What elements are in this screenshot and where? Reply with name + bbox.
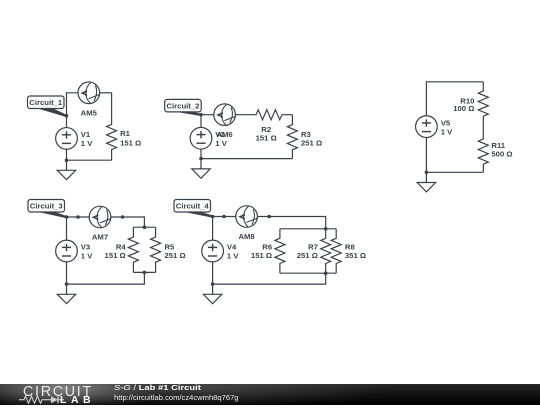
wire C4 corner to ammeter	[213, 216, 236, 218]
resistor R3 251 ohm	[287, 115, 322, 159]
wire C4 parallel bottom bus	[280, 272, 336, 274]
svg-text:AM7: AM7	[92, 232, 108, 241]
svg-text:151 Ω: 151 Ω	[105, 251, 126, 260]
svg-text:151 Ω: 151 Ω	[120, 139, 141, 148]
wire C3 ammeter to parallel feed	[111, 217, 145, 227]
svg-text:Circuit_3: Circuit_3	[30, 201, 63, 210]
wire C2 ground stub	[200, 159, 202, 169]
voltage source V1 1 V	[56, 128, 94, 150]
node C1 label anchor junction	[65, 114, 69, 118]
wire C1 ground stub	[66, 160, 68, 170]
svg-text:151 Ω: 151 Ω	[251, 251, 272, 260]
node C2 ground junction	[199, 157, 203, 161]
wire C1 bottom rail	[67, 149, 112, 160]
svg-text:351 Ω: 351 Ω	[345, 251, 366, 260]
svg-text:100 Ω: 100 Ω	[453, 104, 474, 113]
svg-text:1 V: 1 V	[227, 252, 239, 261]
svg-text:AM5: AM5	[81, 108, 98, 117]
label Circuit_4 callout	[174, 200, 213, 217]
svg-text:251 Ω: 251 Ω	[301, 139, 322, 148]
svg-text:R3: R3	[301, 130, 311, 139]
wire C5 bottom rail	[426, 138, 483, 173]
svg-text:1 V: 1 V	[81, 252, 93, 261]
wire C4 V4 stub top	[212, 217, 214, 241]
resistor R8 351 ohm	[331, 229, 366, 273]
wire C2 corner to ammeter	[201, 114, 214, 116]
ground C3	[57, 293, 75, 304]
node C3 label anchor junction	[65, 215, 69, 219]
label Circuit_2 callout	[165, 99, 202, 115]
wire C1 ammeter to V1 top corner	[67, 93, 79, 128]
ground C2	[192, 167, 210, 178]
ground C4	[203, 293, 221, 304]
node C4 ammeter right junction	[267, 215, 271, 219]
node C3 bottom bus junction	[143, 271, 147, 275]
svg-text:R2: R2	[261, 125, 271, 134]
ammeter AM5	[78, 82, 100, 117]
ammeter AM6	[214, 104, 236, 139]
svg-text:Circuit_2: Circuit_2	[166, 101, 199, 110]
resistor R4 151 ohm	[105, 227, 139, 272]
ammeter AM8	[236, 206, 258, 241]
resistor R11 500 ohm	[478, 139, 512, 172]
footer url line	[114, 393, 239, 402]
svg-text:V5: V5	[441, 118, 451, 127]
resistor R1 151 ohm	[107, 93, 142, 160]
node C2 label anchor junction	[199, 113, 203, 117]
svg-text:AM8: AM8	[238, 232, 255, 241]
wire C4 ammeter to parallel feed	[257, 217, 325, 229]
wire C3 parallel bottom bus	[133, 271, 155, 273]
wire C3 bottom rail	[67, 262, 145, 284]
svg-text:1 V: 1 V	[81, 139, 93, 148]
node C4 bottom bus junction	[324, 271, 328, 275]
wire C5 ground stub	[425, 172, 427, 182]
label Circuit_3 callout	[28, 200, 67, 218]
resistor R10 100 ohm	[453, 82, 488, 139]
resistor R2 151 ohm	[256, 110, 282, 143]
voltage source V3 1 V	[56, 240, 94, 262]
wire C4 bottom rail	[213, 262, 326, 284]
svg-text:V4: V4	[227, 243, 237, 252]
logo LAB text	[60, 395, 95, 406]
ground C5	[417, 181, 435, 192]
svg-text:251 Ω: 251 Ω	[165, 251, 186, 260]
svg-text:Circuit_4: Circuit_4	[176, 201, 210, 210]
wire C2 R2 to R3 corner	[282, 114, 292, 116]
wire C2 bottom rail	[201, 149, 292, 159]
node C3 top bus junction	[143, 225, 147, 229]
svg-text:V1: V1	[81, 130, 91, 139]
node C5 ground junction	[425, 171, 429, 175]
footer title line	[114, 383, 201, 392]
wire C4 ground stub	[212, 284, 214, 294]
logo diode	[51, 396, 58, 403]
wire C4 parallel top bus	[280, 228, 336, 230]
resistor R7 251 ohm	[297, 229, 331, 273]
footer bar	[0, 384, 540, 405]
node C3 ammeter left junction	[76, 215, 80, 219]
node C3 ammeter right junction	[121, 215, 125, 219]
ground C1	[57, 169, 75, 180]
node C4 ground junction	[211, 282, 215, 286]
svg-text:500 Ω: 500 Ω	[491, 149, 512, 158]
svg-text:V3: V3	[81, 243, 90, 252]
wire C2 V2 stub top	[200, 115, 202, 128]
wire C2 ammeter to R2	[235, 114, 256, 116]
node C1 ground junction	[65, 158, 69, 162]
wire C1 ammeter to R1 top	[100, 92, 112, 94]
CircuitLab logo resistor-diode glyph	[19, 394, 71, 406]
resistor R6 151 ohm	[251, 229, 285, 273]
svg-text:Circuit_1: Circuit_1	[29, 98, 63, 107]
wire C3 parallel top bus	[133, 226, 155, 228]
logo resistor zigzag	[19, 396, 51, 403]
svg-text:1 V: 1 V	[441, 127, 453, 136]
node C3 ground junction	[65, 282, 69, 286]
svg-text:1 V: 1 V	[215, 139, 227, 148]
voltage source V4 1 V	[202, 240, 240, 262]
svg-text:251 Ω: 251 Ω	[297, 251, 318, 260]
svg-text:R1: R1	[120, 129, 131, 138]
wire C3 ground stub	[66, 284, 68, 294]
node C4 top bus junction	[324, 227, 328, 231]
voltage source V2 1 V	[190, 127, 228, 149]
voltage source V5 1 V	[416, 116, 454, 138]
node C4 ammeter left junction	[222, 215, 226, 219]
wire C3 V3 stub top	[66, 217, 68, 240]
resistor R5 251 ohm	[151, 227, 186, 272]
label Circuit_1 callout	[28, 96, 67, 116]
wire C5 top rail	[426, 82, 483, 116]
ammeter AM7	[89, 206, 111, 241]
node C4 label anchor junction	[211, 215, 215, 219]
svg-text:151 Ω: 151 Ω	[256, 134, 277, 143]
CircuitLab logo wordmark CIRCUIT	[23, 384, 93, 400]
wire C3 corner to ammeter	[67, 216, 90, 218]
